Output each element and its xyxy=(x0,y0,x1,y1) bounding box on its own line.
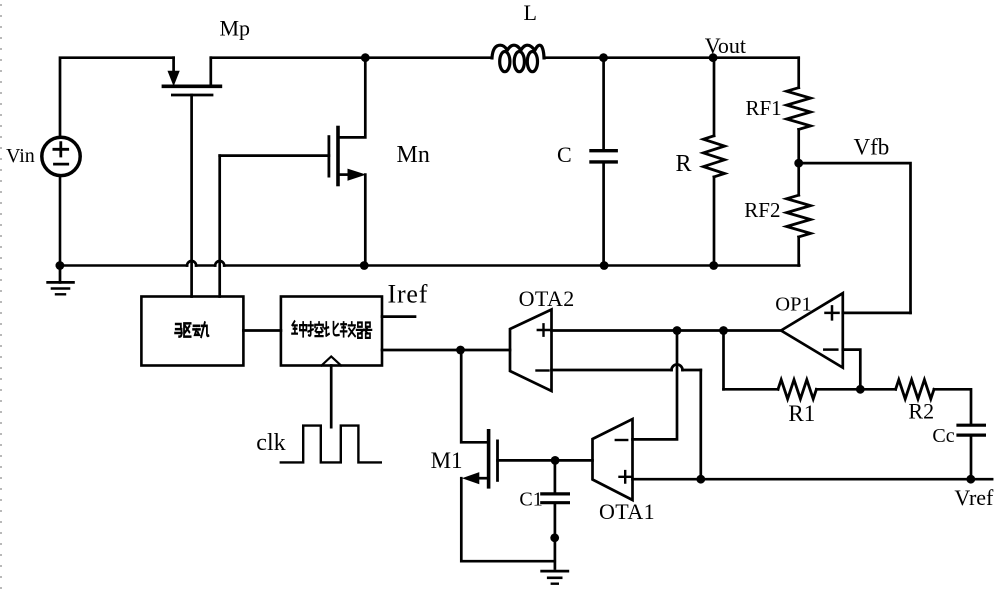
wire OTA1 output to M1 gate xyxy=(498,459,593,462)
node Mn drain on top rail xyxy=(361,53,370,62)
node C top xyxy=(599,53,608,62)
resistor RF1 xyxy=(797,58,800,88)
wire Mp gate stem down to driver box xyxy=(190,95,193,297)
node OTA2 minus on Vref rail xyxy=(696,475,705,484)
clock input wedge xyxy=(322,357,342,366)
svg-text:Vfb: Vfb xyxy=(854,135,890,160)
ground at Vin xyxy=(59,266,62,283)
node Mn source on ground rail xyxy=(360,261,369,270)
clk waveform xyxy=(281,426,381,463)
resistor R xyxy=(713,58,716,136)
scan artifact left edge dots xyxy=(0,4,2,590)
wire Mn gate down to driver box xyxy=(218,156,221,297)
svg-text:Mp: Mp xyxy=(220,16,251,41)
wire OTA2 minus input with hop xyxy=(552,369,701,372)
wire Vfb node to right xyxy=(799,163,911,313)
wire hop over vertical xyxy=(672,365,683,371)
wire Iref stub xyxy=(382,315,415,318)
wire OTA2 minus down to Vref rail xyxy=(699,370,702,479)
node Vfb xyxy=(794,159,803,168)
resistor R2 xyxy=(860,388,895,391)
svg-text:OTA2: OTA2 xyxy=(519,286,575,311)
wire top rail left: Vin to Mp source xyxy=(60,58,174,137)
op-amp OTA1 xyxy=(593,419,633,500)
wire top rail: Mp drain to inductor xyxy=(211,56,492,59)
svg-text:Cc: Cc xyxy=(932,425,954,447)
node Cc on Vref rail xyxy=(966,475,975,484)
wire hop over Mn gate xyxy=(215,261,224,266)
capacitor C xyxy=(602,58,605,150)
wire OTA1 minus input up to rail xyxy=(633,331,678,440)
node C1 bottom xyxy=(550,533,559,542)
transistor Q Mp xyxy=(172,58,175,72)
node M1 gate C1 junction xyxy=(551,456,560,465)
svg-text:OP1: OP1 xyxy=(775,294,811,316)
op-amp OP1 xyxy=(781,293,843,367)
capacitor C1 xyxy=(554,460,557,493)
transistor Q Mn xyxy=(338,58,365,138)
inductor L xyxy=(492,45,544,58)
svg-text:M1: M1 xyxy=(431,448,463,473)
label 驱动 (driver) vector glyphs xyxy=(175,323,208,337)
svg-text:Vout: Vout xyxy=(705,33,746,58)
wire between boxes xyxy=(243,329,281,332)
svg-text:Iref: Iref xyxy=(388,280,429,309)
svg-text:R1: R1 xyxy=(788,401,815,426)
svg-text:OTA1: OTA1 xyxy=(599,499,655,524)
wire R1 left lead down xyxy=(722,331,725,390)
wire OTA2 plus input rail to OP1 xyxy=(552,329,782,332)
wire Vin bottom xyxy=(59,176,62,266)
wire hop over Mp gate xyxy=(187,261,196,266)
wire ground rail with hops xyxy=(57,264,799,267)
box driver 驱动 xyxy=(141,297,243,366)
svg-text:R2: R2 xyxy=(908,398,934,423)
svg-text:clk: clk xyxy=(256,430,285,456)
node OTA1 minus junction xyxy=(673,326,682,335)
svg-text:Vin: Vin xyxy=(6,145,35,167)
label 钟控比较器 (clocked comparator) vector glyphs xyxy=(292,321,371,337)
ground under C1 xyxy=(542,570,568,573)
wire Vref rail xyxy=(633,478,993,481)
svg-text:C: C xyxy=(557,142,572,167)
svg-text:RF1: RF1 xyxy=(746,96,782,120)
svg-text:C1: C1 xyxy=(519,489,542,511)
node R bottom xyxy=(709,261,718,270)
resistor R1 xyxy=(724,388,779,391)
capacitor Cc xyxy=(958,425,984,435)
svg-text:L: L xyxy=(524,0,537,25)
wire OP1 plus input xyxy=(843,312,911,315)
node R1 R2 junction xyxy=(856,385,865,394)
node M1 drain junction xyxy=(456,346,465,355)
resistor RF2 xyxy=(797,163,800,195)
node Vin ground xyxy=(56,261,65,270)
wire OP1 minus input xyxy=(843,350,861,390)
svg-text:RF2: RF2 xyxy=(744,198,780,222)
node Vout xyxy=(709,53,718,62)
transistor M1 xyxy=(461,350,488,442)
node C bottom xyxy=(600,261,609,270)
wire top rail: inductor to RF1 corner xyxy=(544,56,799,59)
node R1 lead junction xyxy=(719,326,728,335)
op-amp OTA2 xyxy=(510,310,552,392)
wire clk vertical xyxy=(330,366,333,428)
wire comparator output to OTA2 xyxy=(382,349,510,352)
svg-text:Mn: Mn xyxy=(397,142,430,168)
svg-text:Vref: Vref xyxy=(954,485,994,510)
voltage source Vin xyxy=(42,137,80,175)
box clocked comparator 钟控比较器 xyxy=(281,297,382,366)
svg-text:R: R xyxy=(676,151,692,177)
